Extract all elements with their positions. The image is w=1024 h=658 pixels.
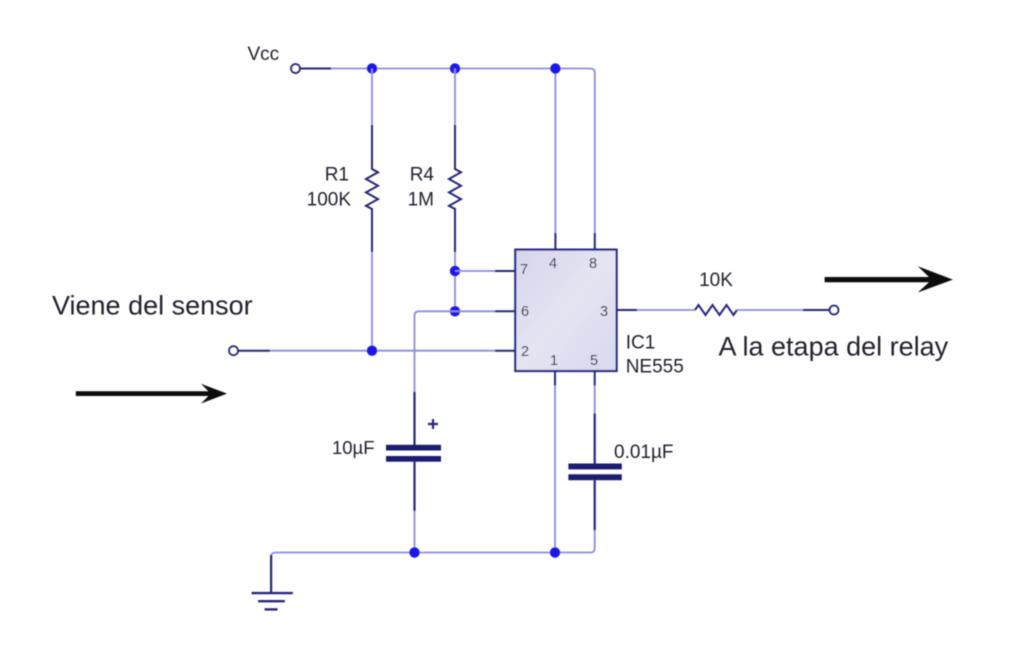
capacitor C1 10uF plus sign <box>428 419 438 429</box>
capacitor C2 lead top <box>594 413 596 464</box>
wire R4 top <box>454 69 456 128</box>
svg-text:4: 4 <box>549 256 557 272</box>
ground <box>270 555 272 593</box>
wire output stub <box>803 309 829 311</box>
node R4-pin7 <box>450 266 460 276</box>
wire Vcc terminal stub <box>300 68 331 70</box>
arrow output <box>825 266 953 292</box>
wire Vcc rail <box>331 69 595 234</box>
node pin1-rail <box>550 547 560 557</box>
capacitor C1 10uF lead top <box>413 392 415 445</box>
node Vcc-R4 <box>450 63 460 73</box>
wire pin1 to ground rail <box>554 386 556 553</box>
IC IC1 NE555 body <box>515 250 616 371</box>
pin 8 stub <box>594 233 596 250</box>
node Vcc-pin4 <box>550 63 560 73</box>
svg-text:R4: R4 <box>410 165 435 186</box>
node input-R1 <box>367 346 377 356</box>
node Vcc-R1 <box>367 63 377 73</box>
svg-text:1: 1 <box>550 353 558 369</box>
node pin6 <box>450 306 460 316</box>
pin 4 stub <box>554 233 556 250</box>
svg-text:6: 6 <box>521 304 529 320</box>
wire pin5 to C2 <box>594 386 596 414</box>
capacitor C2 plates <box>568 464 621 470</box>
wire pin2 stub <box>495 350 515 352</box>
resistor R4 <box>449 125 461 252</box>
svg-text:2: 2 <box>521 344 529 360</box>
pin 3 stub <box>617 309 637 311</box>
svg-text:10µF: 10µF <box>332 437 375 458</box>
wire R to output <box>737 309 803 311</box>
wire ground rail <box>271 553 555 559</box>
svg-text:NE555: NE555 <box>626 357 684 378</box>
terminal Vcc <box>291 64 300 73</box>
wire R1 bottom <box>371 252 373 351</box>
pin 1 stub <box>554 371 556 386</box>
capacitor C2 lead bottom <box>594 480 596 530</box>
wire R4 bottom <box>454 252 456 311</box>
wire input to pin2 <box>270 350 495 352</box>
node C1-rail <box>409 547 419 557</box>
wire C2 to ground rail <box>555 530 595 552</box>
wire C1 to ground rail <box>414 511 416 553</box>
wire pin6 to C1 <box>415 311 456 392</box>
wire pin7 <box>455 270 495 272</box>
pin 5 stub <box>594 371 596 386</box>
svg-text:10K: 10K <box>699 270 733 291</box>
svg-text:0.01µF: 0.01µF <box>614 442 674 463</box>
wire R1 top <box>371 69 373 128</box>
capacitor C1 lead bottom <box>413 462 415 511</box>
svg-text:7: 7 <box>520 262 528 278</box>
svg-text:1M: 1M <box>408 190 434 211</box>
capacitor C1 plates <box>386 445 441 451</box>
resistor 10K <box>695 305 737 315</box>
wire pin6 <box>455 310 495 312</box>
svg-text:IC1: IC1 <box>626 333 656 354</box>
svg-text:A la etapa del relay: A la etapa del relay <box>719 332 949 362</box>
wire pin4 drop <box>554 69 556 234</box>
svg-text:Vcc: Vcc <box>248 44 280 65</box>
arrow input <box>76 384 227 404</box>
svg-text:Viene del sensor: Viene del sensor <box>52 291 253 321</box>
svg-text:3: 3 <box>600 304 608 320</box>
svg-text:100K: 100K <box>307 190 352 211</box>
terminal output <box>830 306 839 315</box>
resistor R1 <box>366 125 378 252</box>
svg-text:5: 5 <box>590 353 598 369</box>
svg-text:8: 8 <box>589 256 597 272</box>
svg-text:R1: R1 <box>325 165 349 186</box>
wire pin3 to R <box>637 309 695 311</box>
terminal input <box>229 346 238 355</box>
wire input stub <box>238 350 270 352</box>
